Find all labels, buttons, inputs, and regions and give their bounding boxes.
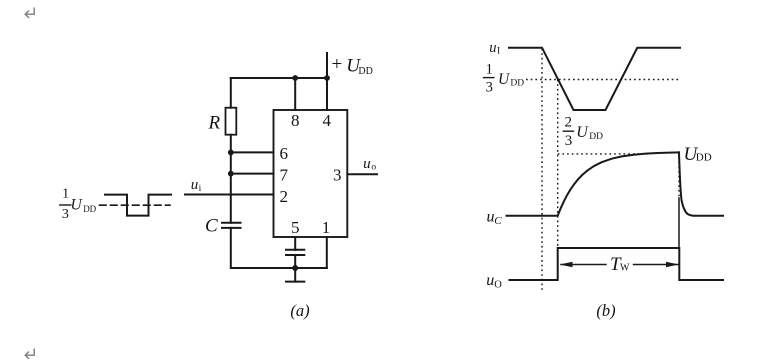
svg-text:i: i bbox=[199, 184, 202, 194]
svg-text:o: o bbox=[371, 162, 376, 172]
power +UDD lead bbox=[326, 53, 328, 78]
label UDD (uC peak) bbox=[684, 144, 712, 165]
pin 2 number bbox=[279, 187, 288, 206]
svg-text:C: C bbox=[205, 216, 218, 237]
svg-text:U: U bbox=[576, 124, 589, 141]
waveform uC label bbox=[487, 208, 503, 227]
svg-text:W: W bbox=[620, 263, 630, 274]
paragraph mark top bbox=[25, 8, 34, 18]
waveform uI label bbox=[489, 40, 500, 57]
svg-text:U: U bbox=[498, 71, 511, 88]
paragraph mark bottom bbox=[25, 349, 34, 359]
wire pin 1 stub bbox=[326, 237, 328, 268]
svg-text:(b): (b) bbox=[596, 301, 615, 320]
dimension TW label bbox=[610, 254, 630, 275]
node uo label bbox=[363, 156, 376, 172]
wire pin 7 bbox=[231, 173, 274, 175]
pin 4 number bbox=[323, 111, 332, 130]
svg-text:+: + bbox=[332, 54, 343, 75]
junction dot pin4 rail bbox=[324, 75, 330, 81]
wire input ui to pin 2 bbox=[185, 194, 274, 196]
ground bbox=[294, 268, 296, 282]
svg-text:u: u bbox=[489, 40, 496, 56]
svg-text:2: 2 bbox=[564, 115, 572, 131]
svg-text:6: 6 bbox=[279, 144, 288, 163]
waveform uI trace bbox=[509, 48, 680, 110]
svg-text:R: R bbox=[208, 112, 221, 133]
wire capacitor to ground rail bbox=[231, 228, 327, 268]
svg-text:u: u bbox=[191, 177, 199, 193]
level line 2/3 UDD dotted bbox=[558, 153, 648, 155]
caption (a) bbox=[290, 301, 309, 320]
waveform uC trace charge bbox=[507, 152, 680, 215]
svg-text:C: C bbox=[494, 215, 502, 227]
svg-text:7: 7 bbox=[279, 165, 288, 184]
junction dot ground node bbox=[292, 265, 298, 271]
dimension TW right arrow bbox=[634, 264, 679, 266]
resistor R bbox=[226, 108, 237, 135]
svg-text:U: U bbox=[71, 196, 84, 213]
caption (b) bbox=[596, 301, 615, 320]
wire pin 4 stub bbox=[326, 78, 328, 110]
pin 3 number bbox=[333, 165, 342, 184]
capacitor C1 (pin5 bypass) bbox=[286, 249, 304, 251]
pin 6 number bbox=[279, 144, 288, 163]
wire pin 6 bbox=[231, 151, 274, 153]
wire capacitor C1 to ground rail bbox=[294, 255, 296, 268]
svg-text:2: 2 bbox=[279, 187, 288, 206]
wire rail to resistor bbox=[230, 78, 232, 108]
svg-text:3: 3 bbox=[486, 79, 493, 95]
label 2/3 UDD bbox=[564, 115, 603, 149]
capacitor C bbox=[222, 222, 241, 224]
node ui label bbox=[191, 177, 202, 194]
junction dot pin8 rail bbox=[292, 75, 298, 81]
waveform uC trace discharge bbox=[679, 152, 723, 215]
wire pin 8 stub bbox=[294, 78, 296, 110]
svg-text:DD: DD bbox=[83, 204, 96, 214]
wire resistor bottom bbox=[230, 135, 232, 223]
guide line t2 dotted bbox=[557, 80, 559, 249]
svg-text:3: 3 bbox=[333, 165, 342, 184]
wire pin 5 stub bbox=[294, 237, 296, 250]
svg-text:u: u bbox=[486, 272, 494, 289]
svg-text:3: 3 bbox=[62, 207, 69, 222]
svg-text:O: O bbox=[494, 280, 502, 291]
guide line t1 dotted bbox=[541, 49, 543, 291]
svg-text:5: 5 bbox=[291, 218, 300, 237]
svg-text:DD: DD bbox=[358, 66, 372, 77]
svg-text:4: 4 bbox=[323, 111, 332, 130]
wire top rail bbox=[231, 77, 327, 79]
svg-text:DD: DD bbox=[696, 152, 712, 164]
svg-text:3: 3 bbox=[565, 133, 573, 149]
label +UDD bbox=[332, 54, 373, 77]
waveform uO label bbox=[486, 272, 502, 290]
svg-text:u: u bbox=[363, 156, 371, 172]
label 1/3 UDD (b) bbox=[486, 61, 525, 95]
svg-text:DD: DD bbox=[589, 132, 603, 142]
input trigger waveform bbox=[105, 195, 171, 216]
dimension TW left arrow bbox=[561, 264, 606, 266]
guide line TW end dotted bbox=[678, 157, 680, 198]
junction dot node7 bbox=[228, 171, 234, 177]
svg-text:1: 1 bbox=[62, 187, 69, 202]
waveform uO trace bbox=[510, 248, 724, 280]
input 1/3 UDD dashed level line bbox=[100, 204, 171, 206]
pin 5 number bbox=[291, 218, 300, 237]
svg-text:DD: DD bbox=[510, 78, 524, 88]
wire pin 3 output bbox=[347, 173, 377, 175]
pin 1 number bbox=[322, 218, 331, 237]
level line 1/3 UDD dotted bbox=[526, 79, 679, 81]
svg-text:I: I bbox=[497, 47, 500, 57]
pin 8 number bbox=[291, 111, 300, 130]
svg-text:1: 1 bbox=[322, 218, 331, 237]
svg-text:(a): (a) bbox=[290, 301, 309, 320]
pin 7 number bbox=[279, 165, 288, 184]
IC U1 555 timer bbox=[274, 110, 348, 237]
junction dot node6 bbox=[228, 150, 234, 156]
label 1/3 UDD (input) bbox=[62, 187, 97, 222]
guide line TW end solid bbox=[678, 198, 680, 248]
svg-text:8: 8 bbox=[291, 111, 300, 130]
svg-text:1: 1 bbox=[486, 61, 493, 77]
